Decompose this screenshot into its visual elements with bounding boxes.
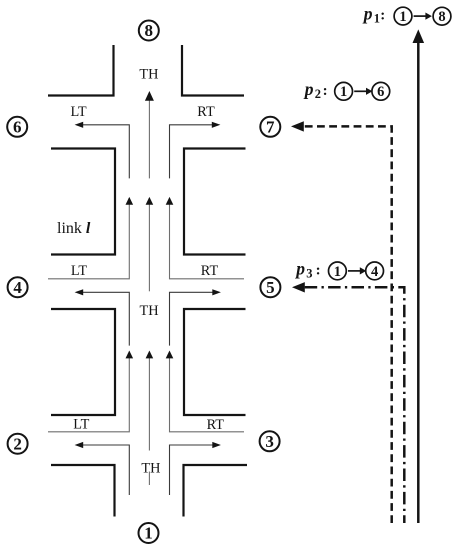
svg-text:TH: TH [139,303,158,319]
svg-text:TH: TH [139,67,158,83]
node 4 [8,277,28,297]
road edge: middle link right block [184,149,246,255]
LT guide top intersection [83,125,129,179]
svg-text:6: 6 [13,117,22,136]
road edge: top road right corner [182,45,244,96]
svg-text:5: 5 [266,278,275,297]
svg-text:1: 1 [340,84,347,100]
TH guide line top intersection (shaft of TH arrow) [148,100,150,178]
path p3 dash-dot line [304,287,404,523]
svg-text:4: 4 [13,278,22,297]
svg-text:TH: TH [141,460,160,476]
svg-text:3: 3 [265,432,274,451]
svg-text:7: 7 [266,117,275,136]
centre lane guide middle link [148,198,150,291]
svg-text:8: 8 [145,21,154,40]
road edge: lower link left block [51,309,115,415]
road edge: lower link right block [184,309,246,415]
RT guide middle intersection [170,292,213,345]
svg-text:LT: LT [71,104,87,120]
svg-text:1: 1 [374,12,380,26]
svg-text:LT: LT [71,263,87,279]
RT arrowhead middle intersection [212,289,221,295]
LT guide middle intersection [83,292,129,345]
centre lane segment below bottom TH label [148,472,150,486]
node 5 [260,277,280,297]
left lane guide lower link with entry from node 2 side road [48,352,129,432]
svg-text:p: p [362,4,373,24]
svg-text:p: p [294,258,305,278]
centre lane arrowhead middle link [146,197,154,205]
path p1 arrowhead [413,29,425,43]
path p2 dashed line [303,126,392,523]
right lane guide lower link with entry from node 3 side road [170,352,245,432]
road edge: bottom road left corner [51,465,115,517]
node 7 [260,117,280,137]
LT guide bottom intersection [83,445,129,495]
right lane arrowhead middle link [166,197,174,205]
label p3 path [294,258,383,280]
svg-text:RT: RT [207,417,225,433]
left lane arrowhead lower link [126,351,134,359]
svg-text:2: 2 [315,87,321,101]
svg-text:RT: RT [197,104,215,120]
node 2 [8,434,28,454]
node 8 [139,21,159,41]
node 6 [7,117,27,137]
label p1 path [362,4,451,26]
left lane arrowhead middle link [126,197,134,205]
svg-text:3: 3 [306,266,312,280]
centre lane guide lower link upper segment [148,352,150,451]
svg-text:p: p [303,79,314,99]
svg-text:1: 1 [399,9,406,25]
TH arrowhead top intersection [145,91,154,101]
svg-text:1: 1 [334,264,341,280]
label p2 path [303,79,390,101]
svg-text:2: 2 [13,434,22,453]
path p2 arrowhead [291,121,304,131]
LT arrowhead middle intersection [75,289,84,295]
left lane guide middle link with entry from node 4 side road [48,198,129,279]
LT arrowhead bottom intersection [75,442,84,448]
path p3 arrowhead [292,282,305,292]
centre lane arrowhead lower link [146,351,154,359]
svg-text:4: 4 [371,264,378,280]
road edge: middle link left block [51,149,115,255]
RT guide bottom intersection [170,445,213,495]
svg-text:1: 1 [144,524,153,543]
road edge: top road left corner [48,45,114,96]
node 3 [260,431,280,451]
right lane guide middle link with entry from node 5 side road [170,198,245,279]
road edge: bottom road right corner [184,465,248,517]
svg-text:LT: LT [73,417,89,433]
svg-text:link l: link l [57,220,91,237]
RT guide top intersection [170,125,213,179]
node 1 [139,523,159,543]
svg-text::: : [380,8,385,24]
path p1 solid line [417,42,420,523]
right lane arrowhead lower link [166,351,174,359]
LT arrowhead top intersection [75,122,84,128]
svg-text:8: 8 [438,9,445,25]
svg-text:RT: RT [201,263,219,279]
RT arrowhead bottom intersection [212,442,221,448]
RT arrowhead top intersection [212,122,221,128]
svg-text:6: 6 [377,84,384,100]
svg-text::: : [323,83,328,99]
svg-text::: : [316,262,321,278]
